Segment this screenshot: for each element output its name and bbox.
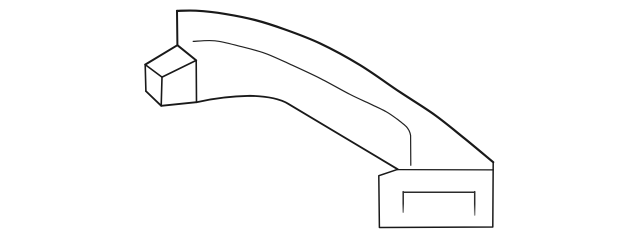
flange inner opening right leg <box>474 192 476 215</box>
connector cube: front vertical edge <box>160 77 163 106</box>
duct upper outline <box>177 11 493 163</box>
connector cube: left vertical edge <box>144 65 147 92</box>
flange top edge <box>398 169 493 171</box>
duct inner contour line <box>193 41 411 166</box>
flange inner opening top edge <box>403 191 475 193</box>
connector cube: bottom front edge <box>161 102 196 106</box>
flange outline <box>379 162 493 227</box>
connector cube: bottom left edge <box>146 91 161 106</box>
flange inner opening left leg <box>402 192 404 213</box>
connector cube: top rear-right edge <box>177 45 196 60</box>
duct lower outline <box>197 96 398 170</box>
duct left end vertical edge <box>176 11 178 45</box>
connector cube: top front-right edge <box>162 60 196 77</box>
connector cube: top rear-left edge <box>145 45 177 64</box>
connector cube: top front-left edge <box>145 65 162 78</box>
connector cube: right vertical edge <box>195 60 197 102</box>
